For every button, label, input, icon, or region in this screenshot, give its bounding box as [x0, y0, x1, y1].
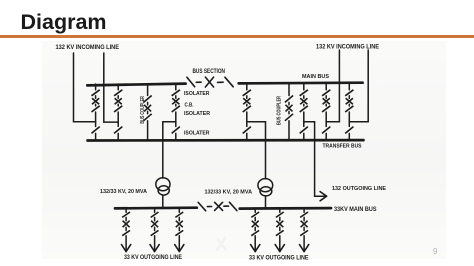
33 kV outgoing feeder L2: outgoing arrow: [150, 245, 159, 252]
bay 5 (132 kV outgoing): circuit breaker: [300, 98, 307, 104]
bus coupler (right): isolator (bottom): [285, 114, 293, 121]
bay 2 (incoming line 2): transfer-bus isolator: [114, 127, 122, 134]
wire: [254, 227, 256, 230]
svg-text:BUS COUPLER: BUS COUPLER: [276, 96, 282, 125]
33 kV outgoing feeder R1: stub from 33 kV bus: [254, 208, 256, 212]
wire: [303, 227, 305, 230]
bus coupler (right): circuit breaker: [286, 105, 293, 112]
label: 132/33 KV, 20 MVA (T2): [205, 189, 253, 195]
incoming line 4 (132 kV) wire: [349, 50, 368, 122]
wire: [254, 217, 256, 220]
bay 4 (transformer 2): circuit breaker: [243, 98, 250, 104]
svg-text:ISOLATER: ISOLATER: [184, 91, 210, 97]
main bus 132 kV (left section): [87, 84, 185, 86]
bay 2 (incoming line 2): isolator (bottom): [114, 106, 122, 112]
bay 5 (132 kV outgoing): isolator (bottom): [300, 106, 308, 112]
svg-text:33 KV OUTGOING LINE: 33 KV OUTGOING LINE: [124, 254, 182, 261]
label: 33KV MAIN BUS: [334, 207, 377, 213]
bus coupler (left): isolator (bottom): [144, 114, 152, 121]
wire: [303, 96, 305, 98]
132 kV outgoing line wire (crosses transfer bus): [304, 122, 325, 196]
33 kV outgoing feeder L2: isolator (bottom): [151, 230, 159, 235]
33 kV outgoing feeder R3: circuit breaker: [301, 221, 308, 228]
33 kV outgoing feeder R1: outgoing arrow: [251, 245, 260, 252]
label: 132 KV INCOMING LINE (left): [56, 44, 120, 51]
bay 7 (incoming line 4): isolator (bottom): [345, 106, 353, 112]
label: 132/33 KV, 20 MVA (T1): [100, 189, 148, 195]
33 kV outgoing feeder R2: isolator (bottom): [276, 230, 284, 235]
bus coupler (right): isolator (top): [285, 96, 293, 103]
bus section circuit breaker: [205, 77, 213, 87]
bay 6 (incoming line 3): isolator (bottom): [322, 106, 330, 112]
wire to transfer bus: [175, 133, 177, 140]
wire: [279, 227, 281, 230]
svg-text:TRANSFER BUS: TRANSFER BUS: [323, 143, 362, 149]
bay 2 (incoming line 2): circuit breaker: [115, 98, 122, 104]
bay 4 (transformer 2): isolator (bottom): [243, 106, 251, 112]
wire: [125, 227, 127, 230]
wire to junction: [95, 112, 97, 126]
33 kV main bus (left section): [115, 206, 197, 209]
wire dash: [196, 81, 201, 83]
wire to transfer bus: [288, 121, 290, 141]
label: BUS COUPLER (left, vertical): [140, 96, 146, 124]
bay 2 (incoming line 2): isolator (top): [114, 90, 122, 96]
bay 1 (incoming line 1): circuit breaker: [92, 98, 99, 104]
bay 6 (incoming line 3): circuit breaker: [323, 98, 330, 104]
wire: [95, 104, 97, 106]
label: ISOLATER (middle): [184, 111, 211, 117]
bus coupler (left): stub from main bus: [147, 84, 149, 96]
bay 6 (incoming line 3): stub from main bus: [325, 84, 327, 90]
wire: [303, 217, 305, 220]
33 kV outgoing feeder L3: isolator (bottom): [175, 230, 183, 235]
wire: [178, 217, 180, 220]
wire to junction: [117, 112, 119, 126]
svg-text:132 KV INCOMING LINE: 132 KV INCOMING LINE: [316, 44, 379, 51]
33 kV outgoing feeder R2: circuit breaker: [276, 221, 283, 228]
wire: transformer T1 to 33 kV bus: [162, 195, 164, 208]
33 kV outgoing feeder R3: stub from 33 kV bus: [303, 208, 305, 212]
33 kV outgoing feeder L3: isolator (top): [175, 212, 183, 217]
bay 1 (incoming line 1): stub from main bus: [95, 84, 97, 90]
wire dash: [224, 205, 229, 207]
33 kV outgoing feeder L1: outgoing arrow: [122, 245, 131, 252]
svg-text:132/33 KV, 20 MVA: 132/33 KV, 20 MVA: [205, 189, 253, 195]
svg-text:132 OUTGOING LINE: 132 OUTGOING LINE: [332, 186, 386, 192]
33 kV bus section circuit breaker: [215, 202, 223, 210]
33 kV outgoing feeder L2: stub from 33 kV bus: [154, 208, 156, 212]
wire: [154, 227, 156, 230]
wire to junction: [325, 112, 327, 126]
wire: junction to transformer T2: [247, 122, 266, 179]
wire dash: [207, 206, 211, 208]
bay 4 (transformer 2): isolator (top): [243, 90, 251, 96]
33 kV outgoing feeder L1: isolator (top): [122, 212, 130, 217]
wire: transformer T2 to 33 kV bus: [265, 196, 267, 208]
wire to arrow: [303, 236, 305, 250]
bay 7 (incoming line 4): stub from main bus: [348, 84, 350, 90]
svg-text:BUS SECTION: BUS SECTION: [193, 68, 226, 75]
page number: [433, 247, 437, 256]
orange divider rule: [0, 35, 474, 38]
svg-text:33KV MAIN BUS: 33KV MAIN BUS: [334, 207, 377, 213]
33 kV outgoing feeder R2: outgoing arrow: [275, 245, 284, 252]
svg-text:ISOLATER: ISOLATER: [184, 111, 211, 117]
33 kV outgoing feeder R1: isolator (top): [251, 212, 259, 217]
label: C.B.: [185, 102, 194, 108]
wire: [95, 96, 97, 98]
wire to arrow: [178, 236, 180, 250]
svg-text:BUS COUPLER: BUS COUPLER: [140, 96, 146, 124]
wire: [279, 217, 281, 220]
slide photo background: [42, 41, 446, 259]
33 kV outgoing feeder L3: stub from 33 kV bus: [178, 208, 180, 212]
33 kV outgoing feeder R2: stub from 33 kV bus: [279, 208, 281, 212]
incoming line 3 (132 kV) wire (crosses main bus): [326, 50, 339, 122]
wire: [325, 96, 327, 98]
wire to arrow: [254, 236, 256, 250]
incoming line 1 (132 kV) wire: [74, 53, 96, 122]
transfer bus: [88, 139, 364, 142]
wire: [246, 96, 248, 98]
svg-text:MAIN BUS: MAIN BUS: [302, 74, 329, 80]
wire to transfer bus: [246, 133, 248, 140]
wire: [348, 104, 350, 106]
bay 1 (incoming line 1): isolator (bottom): [92, 106, 100, 112]
bay 3 (transformer 1): circuit breaker: [172, 98, 179, 104]
wire to transfer bus: [117, 133, 119, 140]
bay 1 (incoming line 1): isolator (top): [92, 90, 100, 96]
wire to transfer bus: [325, 133, 327, 140]
bay 3 (transformer 1): transfer-bus isolator: [172, 127, 180, 134]
wire: [303, 104, 305, 106]
svg-text:33 KV OUTGOING LINE: 33 KV OUTGOING LINE: [249, 254, 309, 261]
33 kV outgoing feeder L1: circuit breaker: [123, 221, 130, 228]
bay 6 (incoming line 3): isolator (top): [322, 90, 330, 96]
svg-text:132 KV INCOMING LINE: 132 KV INCOMING LINE: [56, 44, 120, 51]
wire to junction: [348, 112, 350, 126]
33 kV bus section isolator (right): [229, 202, 237, 210]
33 kV outgoing feeder L1: isolator (bottom): [122, 230, 130, 235]
bay 3 (transformer 1): stub from main bus: [175, 84, 177, 90]
svg-text:132/33 KV, 20 MVA: 132/33 KV, 20 MVA: [100, 189, 148, 195]
wire: [348, 96, 350, 98]
bay 5 (132 kV outgoing): stub from main bus: [303, 84, 305, 90]
wire: junction to transformer T1: [163, 122, 176, 178]
wire: [117, 104, 119, 106]
bay 5 (132 kV outgoing): transfer-bus isolator: [300, 127, 308, 134]
33 kV outgoing feeder R3: outgoing arrow: [300, 245, 309, 252]
bay 7 (incoming line 4): circuit breaker: [346, 98, 353, 104]
svg-text:ISOLATER: ISOLATER: [184, 130, 210, 136]
132 kV outgoing arrow: [320, 192, 327, 201]
bay 5 (132 kV outgoing): isolator (top): [300, 90, 308, 96]
label: 33 KV OUTGOING LINE (left): [124, 254, 182, 261]
33 kV outgoing feeder L2: circuit breaker: [151, 221, 158, 228]
wire to transfer bus: [348, 133, 350, 140]
33 kV outgoing feeder R3: isolator (bottom): [300, 230, 308, 235]
wire to transfer bus: [303, 133, 305, 140]
wire: [154, 217, 156, 220]
label: ISOLATER (top): [184, 91, 210, 97]
bay 3 (transformer 1): isolator (top): [172, 90, 180, 96]
transformer T1 (132/33 kV, 20 MVA): [156, 178, 170, 195]
bus coupler (right): stub from main bus: [288, 84, 290, 96]
bus coupler (left): circuit breaker: [144, 105, 151, 112]
wire: [178, 227, 180, 230]
33 kV bus section isolator (left): [198, 202, 206, 210]
main bus 132 kV (right section): [239, 81, 363, 84]
wire to arrow: [279, 236, 281, 250]
wire to arrow: [154, 236, 156, 250]
bay 7 (incoming line 4): isolator (top): [345, 90, 353, 96]
wire to junction: [303, 112, 305, 126]
bus section isolator (right): [225, 77, 233, 87]
incoming line 2 (132 kV) wire (crosses main bus): [104, 53, 118, 122]
wire: [288, 102, 290, 104]
label: 132 KV INCOMING LINE (right): [316, 44, 379, 51]
bay 4 (transformer 2): transfer-bus isolator: [243, 127, 251, 134]
label: TRANSFER BUS: [323, 143, 362, 149]
bay 6 (incoming line 3): transfer-bus isolator: [322, 127, 330, 134]
bay 7 (incoming line 4): transfer-bus isolator: [345, 127, 353, 134]
33 kV main bus (right section): [240, 207, 331, 210]
faint photo ghost artifact: [217, 238, 226, 250]
wire dash: [218, 81, 224, 83]
33 kV outgoing feeder R3: isolator (top): [300, 212, 308, 217]
wire: [125, 217, 127, 220]
bay 4 (transformer 2): stub from main bus: [246, 84, 248, 90]
33 kV outgoing feeder L3: circuit breaker: [176, 221, 183, 228]
wire: [147, 102, 149, 104]
label: ISOLATER (transfer): [184, 130, 210, 136]
33 kV outgoing feeder R2: isolator (top): [276, 212, 284, 217]
wire to transfer bus: [95, 133, 97, 140]
label: 132 OUTGOING LINE: [332, 186, 386, 192]
33 kV outgoing feeder L2: isolator (top): [151, 212, 159, 217]
33 kV outgoing feeder R1: circuit breaker: [252, 221, 259, 228]
wire: [175, 96, 177, 98]
label: 33 KV OUTGOING LINE (right): [249, 254, 309, 261]
wire: [246, 104, 248, 106]
transformer T2 (132/33 kV, 20 MVA): [258, 179, 273, 196]
bus section coupler on 132 kV main bus: isolator: [187, 77, 195, 87]
wire: [117, 96, 119, 98]
wire to junction: [175, 112, 177, 126]
bus coupler (left): isolator (top): [144, 96, 152, 103]
label: BUS COUPLER (right, vertical): [276, 96, 282, 125]
33 kV outgoing feeder R1: isolator (bottom): [251, 230, 259, 235]
wire: [147, 111, 149, 113]
33 kV outgoing feeder L1: stub from 33 kV bus: [125, 208, 127, 212]
wire: [288, 111, 290, 113]
bay 3 (transformer 1): isolator (bottom): [172, 106, 180, 112]
wire: [325, 104, 327, 106]
label: MAIN BUS: [302, 74, 329, 80]
wire to transfer bus: [147, 121, 149, 141]
wire: [175, 104, 177, 106]
svg-text:C.B.: C.B.: [185, 102, 194, 108]
label: BUS SECTION: [193, 68, 226, 75]
wire to junction: [246, 112, 248, 126]
wire to arrow: [125, 236, 127, 250]
title: Diagram: [21, 10, 107, 35]
33 kV outgoing feeder L3: outgoing arrow: [175, 245, 184, 252]
bay 1 (incoming line 1): transfer-bus isolator: [92, 127, 100, 134]
bay 2 (incoming line 2): stub from main bus: [117, 84, 119, 90]
